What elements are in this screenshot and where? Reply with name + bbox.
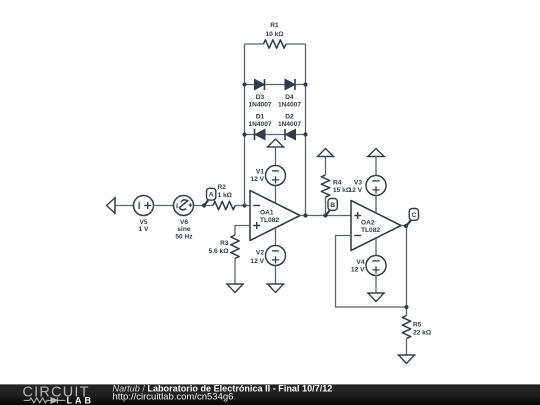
svg-text:5.6 kΩ: 5.6 kΩ	[209, 248, 230, 255]
wire R5 to ground	[406, 339, 408, 356]
wire V1 top stem	[275, 147, 277, 166]
voltage source V2	[250, 246, 285, 266]
svg-text:V4: V4	[356, 259, 364, 266]
voltage source V5	[134, 196, 154, 234]
junction dot (feedback right at output)	[303, 213, 307, 217]
wire V6 to R2	[194, 205, 214, 207]
wire V4 to ground	[375, 276, 377, 294]
diode D1	[248, 114, 271, 141]
ground (below R5)	[399, 355, 415, 364]
wire V2 to ground	[275, 266, 277, 285]
svg-text:D4: D4	[285, 94, 294, 101]
svg-text:10 kΩ: 10 kΩ	[265, 31, 284, 38]
wire OA1 V- pin to V2	[275, 228, 277, 246]
wire OA1 output to OA2 input	[300, 215, 351, 217]
svg-text:12 V: 12 V	[250, 176, 264, 183]
diode D3	[248, 79, 271, 109]
voltage source V4	[351, 256, 386, 276]
svg-text:V5: V5	[139, 219, 147, 226]
resistor R3	[209, 235, 240, 259]
wire R2 to OA1 inverting input	[235, 205, 250, 207]
junction dot (feedback joins inverting input)	[242, 203, 246, 207]
voltage source V3	[348, 176, 386, 196]
wire OA2 output down to R5	[401, 226, 407, 316]
svg-text:1N4007: 1N4007	[278, 121, 301, 128]
wire V3 top stem	[375, 157, 377, 176]
wire R3 to ground	[234, 259, 236, 285]
ground terminal (rotated, input left)	[107, 198, 116, 214]
wire OA1 non-inverting input to R3	[235, 226, 250, 236]
svg-text:sine: sine	[177, 226, 191, 233]
resistor R5	[402, 316, 432, 339]
svg-text:OA2: OA2	[361, 220, 375, 227]
resistor R4	[321, 157, 352, 216]
ground (above V3, pointing up)	[368, 149, 384, 157]
wire V3 to OA2 V+ pin	[375, 196, 377, 214]
wire V5 to V6	[154, 205, 174, 207]
wire OA2 feedback (inverting input to output node)	[336, 236, 407, 308]
svg-text:1N4007: 1N4007	[278, 102, 301, 109]
svg-text:R5: R5	[413, 322, 422, 329]
voltage source V1	[250, 166, 285, 186]
svg-text:1 kΩ: 1 kΩ	[218, 192, 233, 199]
ground (above R4, pointing up)	[318, 149, 334, 157]
op-amp OA1	[250, 191, 300, 241]
svg-text:TL082: TL082	[361, 227, 380, 234]
svg-text:22 kΩ: 22 kΩ	[413, 329, 432, 336]
ground (below R3)	[227, 284, 243, 293]
svg-text:V1: V1	[256, 168, 264, 175]
junction dot (D1/D2 row left)	[242, 132, 246, 136]
ground (above V1, pointing up)	[268, 139, 284, 147]
op-amp OA2	[351, 201, 401, 251]
svg-text:OA1: OA1	[260, 210, 274, 217]
svg-text:12 V: 12 V	[348, 187, 362, 194]
svg-text:TL082: TL082	[260, 217, 279, 224]
svg-text:12 V: 12 V	[351, 267, 365, 274]
svg-text:LAB: LAB	[67, 395, 92, 405]
footer bar	[0, 384, 540, 405]
junction dot (D3/D4 row left)	[242, 82, 246, 86]
svg-text:V3: V3	[354, 179, 362, 186]
node A flag	[202, 188, 216, 207]
wire input rail from terminal to V5	[115, 205, 134, 207]
resistor R1	[245, 22, 306, 48]
diode D2	[278, 114, 301, 141]
svg-text:R4: R4	[333, 179, 342, 186]
svg-text:50 Hz: 50 Hz	[175, 234, 193, 241]
node B flag	[323, 199, 337, 218]
svg-text:1N4007: 1N4007	[248, 102, 271, 109]
ground (below V2)	[268, 284, 284, 293]
junction dot (feedback meets output line)	[404, 305, 408, 309]
svg-text:http://circuitlab.com/cn534g6: http://circuitlab.com/cn534g6	[113, 391, 234, 402]
svg-text:D3: D3	[256, 94, 265, 101]
svg-text:B: B	[330, 202, 335, 209]
node C flag	[404, 209, 419, 229]
svg-text:12 V: 12 V	[250, 258, 264, 265]
svg-text:D2: D2	[285, 114, 294, 121]
svg-text:R1: R1	[270, 22, 279, 29]
svg-text:C: C	[411, 212, 416, 219]
wire OA2 V- pin to V4	[375, 238, 377, 256]
svg-text:V6: V6	[180, 219, 188, 226]
diode D4	[278, 79, 301, 109]
resistor R2	[213, 184, 235, 210]
wire V1 to OA1 V+ pin	[275, 186, 277, 204]
voltage source V6 (sine)	[174, 196, 194, 241]
wire D1/D2 row	[245, 134, 306, 136]
svg-text:A: A	[209, 192, 214, 199]
junction dot (D1/D2 row right)	[303, 132, 307, 136]
CircuitLab logo resistor-diode squiggle	[24, 397, 66, 403]
wire feedback right vertical	[305, 44, 307, 216]
svg-text:1 V: 1 V	[139, 226, 149, 233]
wire D3/D4 row	[245, 84, 306, 86]
svg-text:R2: R2	[218, 184, 227, 191]
ground (below V4)	[368, 293, 384, 302]
svg-text:D1: D1	[256, 114, 265, 121]
svg-text:1N4007: 1N4007	[248, 121, 271, 128]
svg-text:R3: R3	[220, 240, 229, 247]
wire feedback left vertical	[244, 44, 246, 206]
junction dot (D3/D4 row right)	[303, 82, 307, 86]
svg-text:V2: V2	[256, 250, 264, 257]
